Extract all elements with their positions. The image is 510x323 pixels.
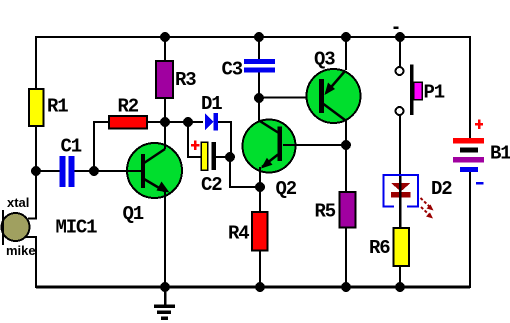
- wire Q2 emitter: [259, 167, 261, 187]
- svg-text:R1: R1: [47, 96, 68, 118]
- resistor R4: [228, 187, 268, 287]
- svg-text:C1: C1: [61, 136, 82, 158]
- svg-text:Q2: Q2: [276, 178, 297, 200]
- node junction R2-R3-Q1 collector: [160, 117, 170, 127]
- wire to Q2 emitter junction: [230, 157, 260, 187]
- wire through D2 to R6: [399, 176, 402, 228]
- wire P1 to D2: [399, 115, 401, 176]
- wire C1 right: [75, 170, 95, 172]
- node junction D1-C2 branch: [183, 117, 193, 127]
- wire Q3 base: [259, 97, 319, 99]
- wire R5 top stem: [345, 145, 347, 192]
- svg-text:xtal: xtal: [7, 195, 29, 210]
- wire Q3 emitter to top rail: [345, 37, 347, 70]
- wire C1 left: [36, 170, 60, 172]
- resistor R2: [109, 116, 147, 129]
- node junction Q3 emitter top rail: [341, 32, 351, 42]
- node junction R4 bottom rail: [255, 282, 265, 292]
- ground: [154, 287, 175, 320]
- svg-text:mike: mike: [6, 243, 36, 258]
- wire Q2 base to node: [283, 144, 346, 146]
- LED D2: [384, 175, 453, 228]
- node junction left-C1: [31, 166, 41, 176]
- node junction R5 bottom rail: [341, 282, 351, 292]
- svg-text:D2: D2: [431, 178, 452, 200]
- wire R4 top stem: [259, 187, 261, 212]
- wire C2 right: [216, 156, 230, 158]
- svg-text:Q1: Q1: [123, 203, 144, 225]
- wire right rail upper: [469, 36, 471, 138]
- wire junction to D1: [165, 121, 203, 123]
- wire mic upper stub: [28, 218, 37, 220]
- transistor Q1: [94, 122, 182, 287]
- wire C3 top stem: [258, 37, 260, 59]
- svg-text:C2: C2: [201, 174, 222, 196]
- node junction R3 top rail: [160, 32, 170, 42]
- svg-text:R3: R3: [175, 69, 196, 91]
- node junction P1 top rail: [395, 32, 405, 42]
- svg-text:R2: R2: [118, 96, 139, 118]
- capacitor C3: [222, 37, 276, 98]
- capacitor C1: [60, 136, 82, 188]
- wire left rail mid: [35, 126, 37, 219]
- battery B1: [453, 120, 510, 185]
- svg-text:R5: R5: [315, 201, 336, 223]
- resistor R5: [315, 145, 356, 287]
- wire R2 right: [147, 121, 165, 123]
- wire right rail lower: [469, 172, 471, 288]
- wire Q1 base: [94, 170, 141, 172]
- wire Q3 collector: [345, 120, 347, 145]
- wire top rail: [36, 36, 470, 38]
- wire P1 top stem: [399, 37, 401, 67]
- pushbutton P1: [394, 27, 445, 116]
- capacitor C2: [191, 141, 222, 197]
- transistor Q2: [243, 98, 347, 200]
- wire bottom rail: [36, 286, 470, 289]
- transistor Q3: [307, 37, 361, 145]
- wire left rail upper: [35, 36, 37, 90]
- wire R6 bottom stem: [399, 266, 401, 287]
- node junction C3-Q2-Q3 base: [254, 93, 264, 103]
- wire R3 bottom stem: [164, 98, 166, 122]
- wire R5 bottom stem: [345, 228, 347, 288]
- node junction ground bottom rail: [160, 282, 170, 292]
- wire D1 to bend: [218, 122, 231, 157]
- D2 light emission arrows: [421, 198, 432, 208]
- microphone MIC1: [2, 195, 98, 288]
- wire left rail lower: [35, 237, 37, 288]
- B1 minus sign: [476, 182, 484, 185]
- wire Q2 collector: [258, 98, 260, 121]
- wire C2 branch down: [188, 122, 201, 157]
- svg-text:R6: R6: [369, 237, 390, 259]
- node junction Q2 emitter-R4: [255, 182, 265, 192]
- wire C3 bottom stem: [258, 73, 260, 99]
- stray dash mark above rail: [394, 27, 399, 30]
- node junction Q3 collector-Q2 base-R5: [341, 140, 351, 150]
- svg-text:MIC1: MIC1: [56, 217, 98, 239]
- wire R3 top stem: [164, 37, 166, 61]
- wire mic lower stub: [25, 236, 37, 238]
- diode D1: [201, 93, 222, 131]
- resistor R6: [369, 228, 409, 287]
- wire Q1 collector: [164, 122, 166, 149]
- svg-text:Q3: Q3: [314, 49, 335, 71]
- wire Q1 emitter to ground rail: [164, 191, 166, 287]
- node junction C1-R2-Q1: [89, 166, 99, 176]
- node junction C3 top rail: [254, 32, 264, 42]
- resistor R1: [29, 89, 44, 126]
- B1 plus sign: [475, 123, 483, 126]
- svg-text:B1: B1: [490, 143, 510, 165]
- C2 polarity plus sign: [191, 144, 200, 147]
- resistor R3: [156, 61, 173, 98]
- svg-text:D1: D1: [201, 93, 222, 115]
- svg-text:P1: P1: [424, 82, 445, 104]
- wire R2 left branch: [94, 122, 109, 171]
- node junction C2-D1: [225, 152, 235, 162]
- svg-text:C3: C3: [222, 59, 243, 81]
- wire R4 bottom stem: [259, 251, 261, 288]
- node junction R6 bottom rail: [395, 282, 405, 292]
- svg-text:R4: R4: [228, 223, 249, 245]
